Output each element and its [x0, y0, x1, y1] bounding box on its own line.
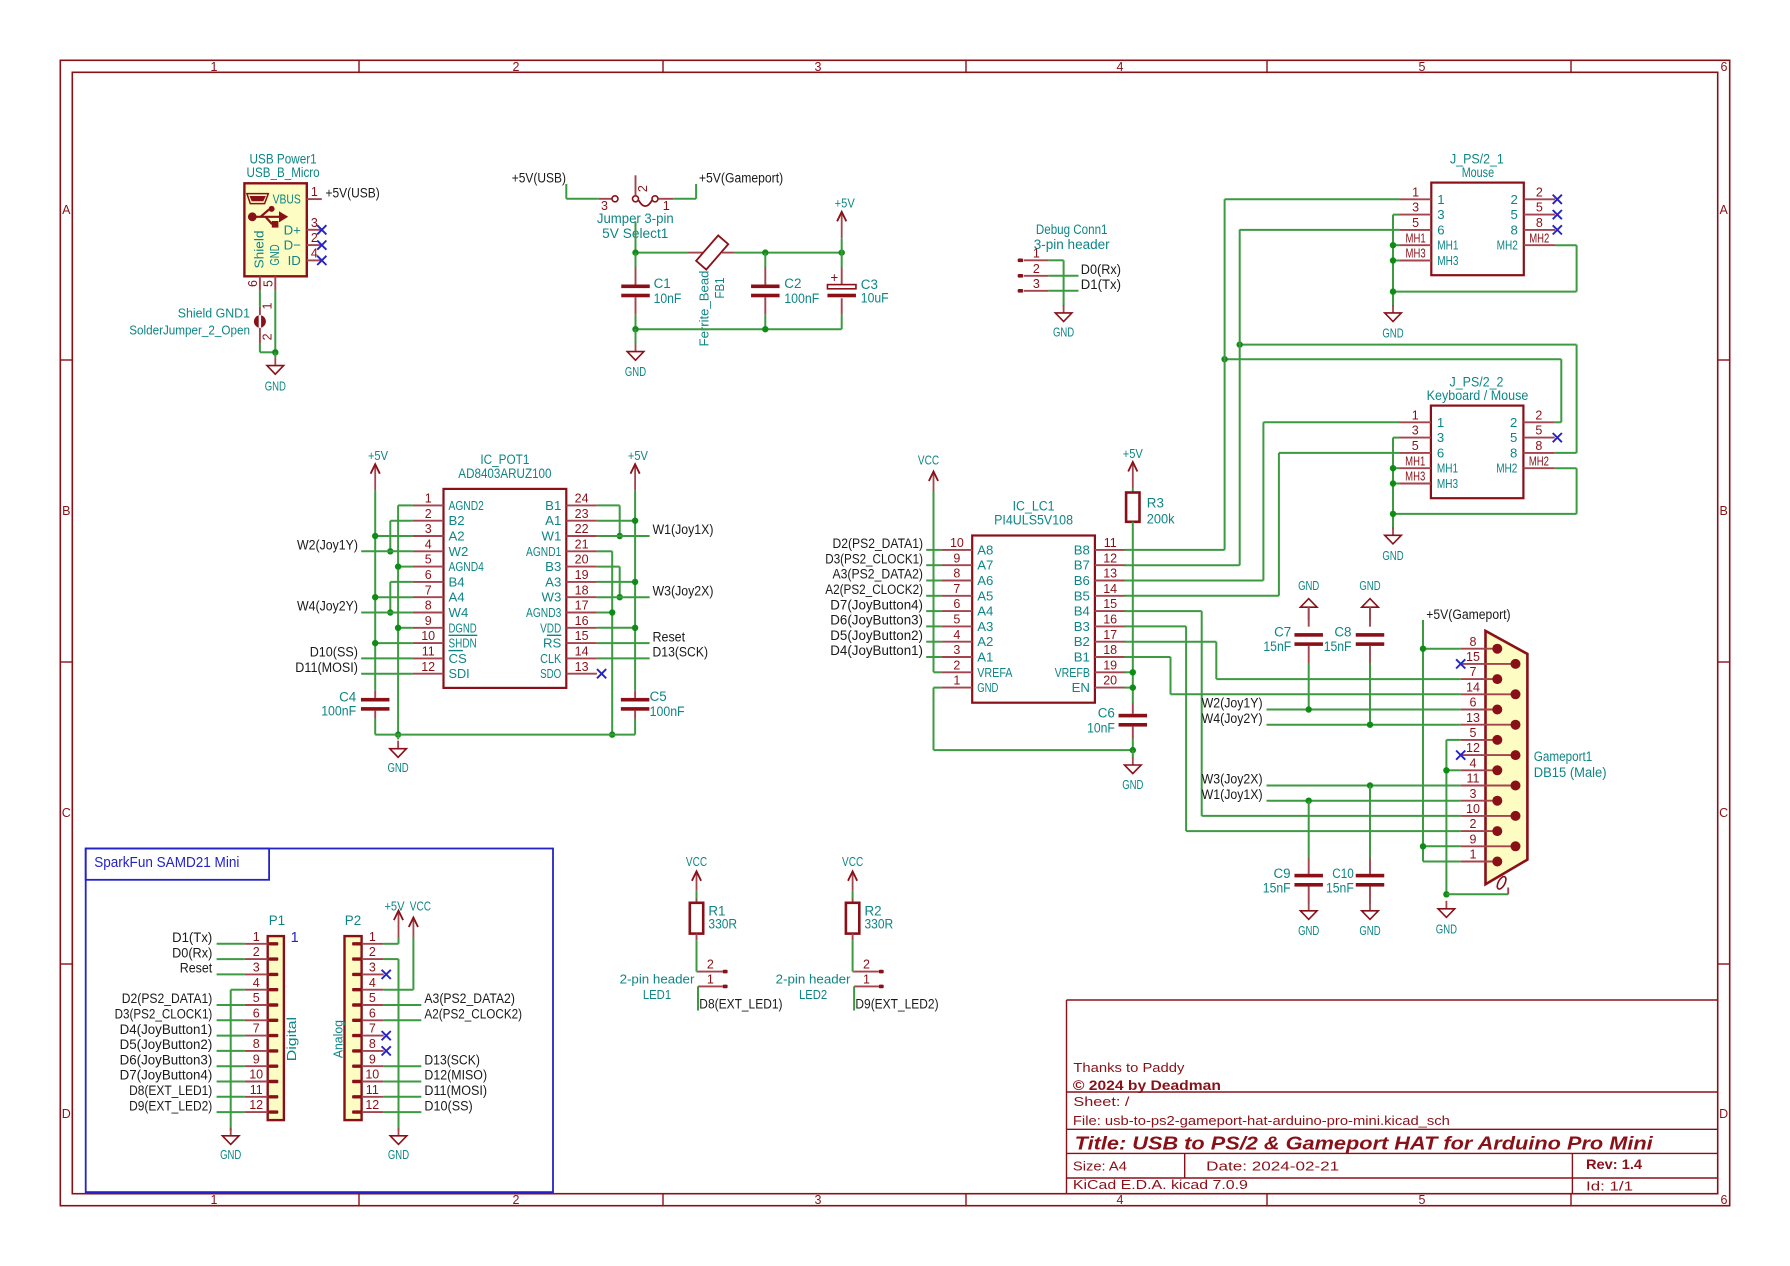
svg-text:B4: B4: [449, 574, 465, 589]
svg-text:15nF: 15nF: [1263, 880, 1291, 895]
svg-text:B3: B3: [545, 559, 561, 574]
svg-text:MH1: MH1: [1405, 454, 1425, 468]
svg-text:Date: 2024-02-21: Date: 2024-02-21: [1206, 1158, 1339, 1173]
svg-text:D−: D−: [284, 238, 302, 253]
svg-text:C7: C7: [1274, 625, 1291, 640]
svg-text:ID: ID: [288, 253, 301, 268]
svg-text:4: 4: [1117, 60, 1124, 74]
svg-text:2: 2: [1033, 262, 1040, 276]
svg-text:19: 19: [575, 568, 589, 582]
svg-text:2: 2: [863, 958, 870, 972]
svg-text:C6: C6: [1098, 706, 1115, 721]
svg-text:3: 3: [815, 1193, 822, 1207]
svg-text:18: 18: [575, 583, 589, 597]
svg-text:GND: GND: [1359, 923, 1380, 938]
svg-text:2: 2: [953, 658, 960, 672]
svg-text:2-pin header: 2-pin header: [776, 972, 851, 987]
svg-text:A: A: [62, 203, 71, 217]
svg-text:15: 15: [1466, 650, 1480, 664]
svg-text:W4: W4: [449, 605, 469, 620]
svg-text:AGND3: AGND3: [526, 605, 561, 620]
svg-text:A3(PS2_DATA2): A3(PS2_DATA2): [424, 991, 515, 1006]
svg-text:1: 1: [1412, 185, 1419, 199]
svg-text:MH1: MH1: [1437, 461, 1458, 476]
svg-text:1: 1: [311, 185, 318, 199]
svg-text:A8: A8: [977, 542, 993, 557]
svg-text:VCC: VCC: [842, 854, 864, 869]
svg-text:2: 2: [261, 333, 275, 340]
svg-text:8: 8: [1470, 635, 1477, 649]
svg-text:6: 6: [1721, 1193, 1728, 1207]
svg-text:GND: GND: [1359, 578, 1380, 593]
svg-text:+5V: +5V: [384, 899, 404, 914]
svg-text:9: 9: [1470, 832, 1477, 846]
svg-text:B1: B1: [1074, 650, 1090, 665]
svg-text:W2: W2: [449, 544, 469, 559]
svg-text:W4(Joy2Y): W4(Joy2Y): [1202, 711, 1263, 726]
svg-text:330R: 330R: [708, 917, 737, 932]
svg-text:13: 13: [1103, 567, 1117, 581]
svg-text:200k: 200k: [1147, 512, 1175, 527]
svg-text:D+: D+: [284, 222, 302, 237]
svg-text:1: 1: [1470, 848, 1477, 862]
svg-text:© 2024 by Deadman: © 2024 by Deadman: [1073, 1078, 1221, 1093]
svg-text:9: 9: [369, 1052, 376, 1066]
svg-text:A6: A6: [977, 573, 993, 588]
svg-text:6: 6: [425, 568, 432, 582]
svg-text:+5V(USB): +5V(USB): [326, 185, 380, 200]
svg-text:W2(Joy1Y): W2(Joy1Y): [1202, 696, 1263, 711]
svg-text:VBUS: VBUS: [273, 192, 301, 207]
svg-text:19: 19: [1103, 658, 1117, 672]
svg-text:AGND2: AGND2: [449, 498, 484, 513]
svg-text:2: 2: [636, 185, 650, 192]
svg-text:+5V: +5V: [835, 196, 855, 211]
svg-text:D5(JoyButton2): D5(JoyButton2): [120, 1037, 213, 1052]
svg-text:Shield: Shield: [251, 230, 266, 268]
svg-text:D: D: [62, 1107, 71, 1121]
svg-text:RS: RS: [543, 636, 562, 651]
svg-text:D0(Rx): D0(Rx): [1081, 262, 1121, 277]
svg-text:8: 8: [425, 599, 432, 613]
svg-text:16: 16: [1103, 613, 1117, 627]
svg-text:B2: B2: [1074, 634, 1090, 649]
svg-text:15nF: 15nF: [1326, 880, 1354, 895]
svg-text:C2: C2: [784, 276, 801, 291]
svg-text:W1: W1: [542, 529, 562, 544]
svg-text:Title: USB to PS/2 & Gameport: Title: USB to PS/2 & Gameport HAT for Ar…: [1075, 1133, 1654, 1154]
svg-text:R3: R3: [1147, 496, 1164, 511]
svg-text:D3(PS2_CLOCK1): D3(PS2_CLOCK1): [825, 551, 923, 566]
svg-text:11: 11: [422, 645, 435, 659]
svg-text:9: 9: [425, 614, 432, 628]
svg-text:3: 3: [369, 961, 376, 975]
svg-text:+5V: +5V: [368, 448, 388, 463]
svg-text:8: 8: [1536, 216, 1543, 230]
svg-text:C4: C4: [339, 690, 357, 705]
svg-text:3: 3: [1033, 277, 1040, 291]
svg-text:CLK: CLK: [540, 651, 561, 666]
svg-text:6: 6: [253, 1006, 260, 1020]
svg-text:B: B: [1720, 504, 1728, 518]
svg-text:18: 18: [1103, 643, 1117, 657]
svg-text:D4(JoyButton1): D4(JoyButton1): [830, 643, 923, 658]
svg-text:A: A: [1720, 203, 1729, 217]
svg-text:5: 5: [261, 280, 275, 287]
svg-text:2: 2: [1535, 408, 1542, 422]
svg-text:11: 11: [250, 1083, 263, 1097]
svg-text:4: 4: [953, 628, 960, 642]
svg-text:D11(MOSI): D11(MOSI): [424, 1083, 487, 1098]
svg-text:5: 5: [1470, 726, 1477, 740]
svg-text:12: 12: [1466, 741, 1480, 755]
svg-text:Thanks to Paddy: Thanks to Paddy: [1073, 1060, 1184, 1075]
svg-text:W3: W3: [542, 590, 562, 605]
svg-text:24: 24: [575, 492, 589, 506]
svg-text:11: 11: [366, 1083, 379, 1097]
svg-text:VREFA: VREFA: [977, 665, 1012, 680]
svg-text:5: 5: [1419, 60, 1426, 74]
svg-text:5: 5: [1510, 430, 1517, 445]
svg-text:GND: GND: [1053, 325, 1074, 340]
svg-text:VCC: VCC: [686, 854, 708, 869]
svg-text:Id: 1/1: Id: 1/1: [1586, 1178, 1633, 1193]
svg-text:A1: A1: [545, 513, 561, 528]
svg-text:1: 1: [211, 1193, 218, 1207]
svg-text:13: 13: [1466, 711, 1480, 725]
svg-text:+5V: +5V: [628, 448, 648, 463]
svg-text:6: 6: [953, 597, 960, 611]
svg-text:2: 2: [369, 945, 376, 959]
svg-text:A3: A3: [977, 619, 993, 634]
svg-text:10uF: 10uF: [861, 290, 889, 305]
svg-text:11: 11: [1467, 772, 1480, 786]
svg-text:+5V(Gameport): +5V(Gameport): [699, 170, 783, 185]
svg-text:GND: GND: [1122, 777, 1143, 792]
svg-text:6: 6: [246, 280, 260, 287]
svg-text:Mouse: Mouse: [1462, 165, 1494, 180]
svg-text:MH3: MH3: [1437, 253, 1458, 268]
svg-text:8: 8: [1510, 445, 1517, 460]
svg-text:6: 6: [1470, 696, 1477, 710]
svg-text:GND: GND: [220, 1147, 241, 1162]
svg-text:GND: GND: [625, 364, 646, 379]
svg-text:GND: GND: [1436, 922, 1457, 937]
svg-text:9: 9: [953, 551, 960, 565]
svg-text:3: 3: [1412, 424, 1419, 438]
svg-text:MH3: MH3: [1405, 470, 1425, 484]
svg-text:15: 15: [575, 629, 589, 643]
svg-text:8: 8: [253, 1037, 260, 1051]
svg-text:D7(JoyButton4): D7(JoyButton4): [830, 597, 923, 612]
svg-text:MH2: MH2: [1496, 461, 1517, 476]
svg-text:D13(SCK): D13(SCK): [653, 645, 709, 660]
svg-text:D9(EXT_LED2): D9(EXT_LED2): [129, 1098, 212, 1113]
svg-text:10: 10: [249, 1068, 263, 1082]
svg-text:VDD: VDD: [540, 620, 561, 635]
svg-text:GND: GND: [388, 760, 409, 775]
svg-text:B3: B3: [1074, 619, 1090, 634]
svg-text:3: 3: [1437, 207, 1444, 222]
svg-text:W4(Joy2Y): W4(Joy2Y): [297, 599, 358, 614]
svg-text:7: 7: [369, 1022, 376, 1036]
svg-text:5: 5: [953, 613, 960, 627]
svg-text:VREFB: VREFB: [1055, 665, 1090, 680]
svg-text:D2(PS2_DATA1): D2(PS2_DATA1): [833, 536, 924, 551]
svg-text:8: 8: [1510, 222, 1517, 237]
svg-text:D10(SS): D10(SS): [310, 645, 358, 660]
svg-text:GND: GND: [977, 680, 998, 695]
svg-text:Gameport1: Gameport1: [1534, 749, 1592, 764]
svg-text:D13(SCK): D13(SCK): [424, 1052, 480, 1067]
svg-text:15: 15: [1103, 597, 1117, 611]
svg-text:GND: GND: [267, 244, 282, 265]
svg-text:1: 1: [261, 302, 275, 309]
svg-text:17: 17: [1103, 628, 1117, 642]
svg-text:SHDN: SHDN: [449, 636, 477, 651]
svg-text:Size: A4: Size: A4: [1073, 1158, 1127, 1173]
svg-text:4: 4: [425, 537, 432, 551]
svg-text:12: 12: [1103, 551, 1117, 565]
svg-text:MH3: MH3: [1437, 476, 1458, 491]
svg-text:D11(MOSI): D11(MOSI): [295, 660, 358, 675]
svg-text:5: 5: [253, 991, 260, 1005]
svg-text:10: 10: [365, 1068, 379, 1082]
svg-text:10nF: 10nF: [1087, 720, 1115, 735]
svg-text:LED1: LED1: [643, 987, 671, 1002]
svg-text:D5(JoyButton2): D5(JoyButton2): [830, 628, 923, 643]
svg-text:AGND4: AGND4: [449, 559, 484, 574]
svg-text:1: 1: [863, 973, 870, 987]
svg-text:MH2: MH2: [1529, 454, 1549, 468]
svg-text:3: 3: [1437, 430, 1444, 445]
svg-text:D10(SS): D10(SS): [424, 1098, 472, 1113]
svg-text:KiCad E.D.A. kicad 7.0.9: KiCad E.D.A. kicad 7.0.9: [1073, 1177, 1248, 1192]
svg-text:7: 7: [425, 583, 432, 597]
svg-text:3: 3: [253, 961, 260, 975]
svg-text:SDO: SDO: [540, 666, 561, 681]
svg-text:SolderJumper_2_Open: SolderJumper_2_Open: [129, 322, 250, 337]
svg-text:20: 20: [575, 553, 589, 567]
svg-text:Debug Conn1: Debug Conn1: [1036, 222, 1108, 237]
svg-text:IC_LC1: IC_LC1: [1013, 499, 1055, 514]
svg-text:A2(PS2_CLOCK2): A2(PS2_CLOCK2): [825, 582, 923, 597]
svg-text:23: 23: [575, 507, 589, 521]
svg-text:3: 3: [1470, 787, 1477, 801]
svg-text:B4: B4: [1074, 604, 1090, 619]
svg-text:7: 7: [953, 582, 960, 596]
svg-text:GND: GND: [1382, 548, 1403, 563]
svg-text:MH2: MH2: [1529, 231, 1549, 245]
svg-text:2: 2: [513, 60, 520, 74]
svg-text:W3(Joy2X): W3(Joy2X): [1202, 772, 1263, 787]
svg-text:Reset: Reset: [180, 961, 213, 976]
svg-text:MH3: MH3: [1406, 247, 1426, 261]
svg-text:3: 3: [953, 643, 960, 657]
svg-text:Analog: Analog: [331, 1020, 346, 1058]
svg-text:B6: B6: [1074, 573, 1090, 588]
svg-text:D1(Tx): D1(Tx): [1081, 277, 1121, 292]
svg-text:+5V: +5V: [1123, 446, 1143, 461]
svg-text:PI4ULS5V108: PI4ULS5V108: [994, 513, 1073, 528]
svg-text:5: 5: [1412, 216, 1419, 230]
svg-text:5: 5: [1412, 439, 1419, 453]
svg-text:2: 2: [425, 507, 432, 521]
svg-text:17: 17: [575, 599, 589, 613]
svg-text:4: 4: [311, 247, 318, 261]
svg-text:B: B: [62, 504, 70, 518]
svg-text:4: 4: [1470, 756, 1477, 770]
svg-text:2: 2: [1510, 415, 1517, 430]
svg-text:A4: A4: [449, 590, 465, 605]
svg-text:D6(JoyButton3): D6(JoyButton3): [120, 1052, 213, 1067]
svg-text:6: 6: [1437, 222, 1444, 237]
svg-text:W1(Joy1X): W1(Joy1X): [653, 522, 714, 537]
svg-text:1: 1: [253, 930, 260, 944]
svg-text:MH1: MH1: [1406, 231, 1426, 245]
svg-text:P2: P2: [345, 913, 361, 928]
svg-text:B8: B8: [1074, 542, 1090, 557]
svg-text:2: 2: [1536, 185, 1543, 199]
svg-text:D3(PS2_CLOCK1): D3(PS2_CLOCK1): [115, 1007, 213, 1022]
svg-text:W3(Joy2X): W3(Joy2X): [653, 583, 714, 598]
svg-text:A2(PS2_CLOCK2): A2(PS2_CLOCK2): [424, 1007, 522, 1022]
svg-text:7: 7: [1470, 665, 1477, 679]
svg-text:5: 5: [1535, 424, 1542, 438]
svg-text:1: 1: [1437, 192, 1444, 207]
svg-text:A3(PS2_DATA2): A3(PS2_DATA2): [833, 567, 924, 582]
svg-text:1: 1: [1412, 408, 1419, 422]
svg-text:6: 6: [1437, 445, 1444, 460]
svg-text:MH1: MH1: [1437, 238, 1458, 253]
svg-text:1: 1: [425, 492, 432, 506]
svg-text:1: 1: [291, 930, 299, 946]
svg-text:D8(EXT_LED1): D8(EXT_LED1): [129, 1083, 212, 1098]
svg-text:DB15 (Male): DB15 (Male): [1534, 765, 1607, 780]
svg-text:3: 3: [425, 522, 432, 536]
svg-text:AD8403ARUZ100: AD8403ARUZ100: [458, 466, 551, 481]
svg-text:GND: GND: [265, 379, 286, 394]
svg-text:10nF: 10nF: [654, 291, 682, 306]
svg-text:D1(Tx): D1(Tx): [172, 930, 212, 945]
svg-text:1: 1: [369, 930, 376, 944]
svg-text:GND: GND: [1298, 923, 1319, 938]
svg-text:W2(Joy1Y): W2(Joy1Y): [297, 538, 358, 553]
svg-text:D0(Rx): D0(Rx): [172, 945, 212, 960]
svg-text:VCC: VCC: [918, 453, 940, 468]
svg-text:1: 1: [1033, 246, 1040, 260]
svg-text:B7: B7: [1074, 558, 1090, 573]
svg-text:12: 12: [365, 1098, 379, 1112]
svg-text:LED2: LED2: [799, 987, 827, 1002]
svg-text:CS: CS: [449, 651, 468, 666]
svg-text:USB Power1: USB Power1: [250, 151, 317, 166]
svg-text:Rev: 1.4: Rev: 1.4: [1586, 1157, 1642, 1172]
svg-text:AGND1: AGND1: [526, 544, 561, 559]
svg-text:7: 7: [253, 1022, 260, 1036]
svg-text:SDI: SDI: [449, 666, 470, 681]
svg-text:C8: C8: [1334, 625, 1351, 640]
svg-text:4: 4: [1117, 1193, 1124, 1207]
svg-text:3: 3: [815, 60, 822, 74]
svg-text:Ferrite_Bead: Ferrite_Bead: [697, 271, 712, 347]
svg-text:MH2: MH2: [1497, 238, 1518, 253]
svg-text:+: +: [830, 270, 838, 285]
svg-text:C1: C1: [654, 276, 671, 291]
svg-text:5: 5: [1510, 207, 1517, 222]
svg-text:Shield GND1: Shield GND1: [178, 306, 250, 321]
svg-text:DGND: DGND: [449, 620, 477, 635]
svg-text:GND: GND: [1298, 578, 1319, 593]
svg-text:1: 1: [953, 674, 960, 688]
svg-text:3-pin header: 3-pin header: [1034, 237, 1110, 252]
svg-text:D7(JoyButton4): D7(JoyButton4): [120, 1068, 213, 1083]
svg-text:D12(MISO): D12(MISO): [424, 1068, 487, 1083]
svg-text:22: 22: [575, 522, 589, 536]
svg-text:D4(JoyButton1): D4(JoyButton1): [120, 1022, 213, 1037]
svg-text:9: 9: [253, 1052, 260, 1066]
svg-text:2: 2: [1470, 817, 1477, 831]
svg-text:2: 2: [253, 945, 260, 959]
svg-text:100nF: 100nF: [321, 703, 356, 718]
svg-text:10: 10: [950, 536, 964, 550]
svg-text:2: 2: [513, 1193, 520, 1207]
svg-text:C: C: [1719, 806, 1728, 820]
svg-text:GND: GND: [1382, 326, 1403, 341]
svg-text:4: 4: [253, 976, 260, 990]
svg-text:2: 2: [1510, 192, 1517, 207]
svg-text:2: 2: [311, 231, 318, 245]
svg-text:14: 14: [575, 645, 589, 659]
svg-text:EN: EN: [1072, 680, 1090, 695]
svg-text:12: 12: [421, 660, 435, 674]
svg-text:16: 16: [575, 614, 589, 628]
svg-text:5: 5: [1419, 1193, 1426, 1207]
svg-text:Keyboard / Mouse: Keyboard / Mouse: [1427, 388, 1529, 403]
svg-text:W1(Joy1X): W1(Joy1X): [1202, 787, 1263, 802]
svg-text:15nF: 15nF: [1263, 639, 1291, 654]
svg-text:A1: A1: [977, 650, 993, 665]
svg-text:11: 11: [1104, 536, 1117, 550]
svg-text:A2: A2: [977, 634, 993, 649]
svg-text:+5V(USB): +5V(USB): [512, 170, 566, 185]
svg-text:SparkFun SAMD21 Mini: SparkFun SAMD21 Mini: [94, 855, 239, 871]
svg-text:USB_B_Micro: USB_B_Micro: [247, 165, 320, 180]
svg-text:D9(EXT_LED2): D9(EXT_LED2): [855, 996, 938, 1011]
svg-text:100nF: 100nF: [650, 704, 685, 719]
svg-text:Digital: Digital: [284, 1017, 299, 1061]
svg-text:2: 2: [707, 958, 714, 972]
svg-text:10: 10: [1466, 802, 1480, 816]
svg-text:13: 13: [575, 660, 589, 674]
svg-text:5: 5: [369, 991, 376, 1005]
svg-text:5: 5: [1536, 201, 1543, 215]
svg-text:5: 5: [425, 553, 432, 567]
svg-text:2-pin header: 2-pin header: [620, 972, 695, 987]
svg-text:A7: A7: [977, 558, 993, 573]
svg-text:14: 14: [1103, 582, 1117, 596]
svg-text:3: 3: [1412, 201, 1419, 215]
svg-text:10: 10: [421, 629, 435, 643]
svg-text:Reset: Reset: [653, 629, 686, 644]
svg-text:FB1: FB1: [712, 277, 727, 298]
svg-text:15nF: 15nF: [1324, 639, 1352, 654]
svg-text:1: 1: [211, 60, 218, 74]
svg-text:A5: A5: [977, 588, 993, 603]
svg-text:20: 20: [1103, 674, 1117, 688]
svg-text:A4: A4: [977, 604, 993, 619]
svg-text:File: usb-to-ps2-gameport-hat-: File: usb-to-ps2-gameport-hat-arduino-pr…: [1073, 1113, 1450, 1128]
